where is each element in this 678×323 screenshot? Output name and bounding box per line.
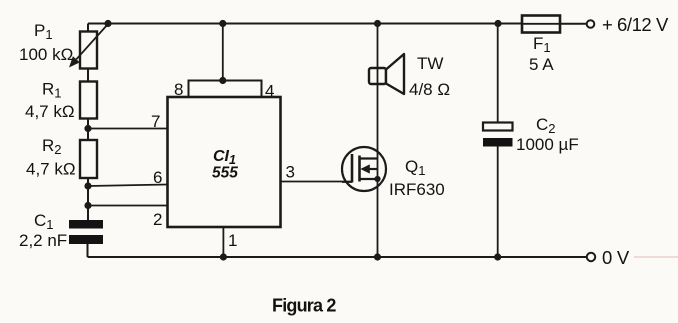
source stub [360, 178, 378, 180]
svg-text:+ 6/12 V: + 6/12 V [602, 14, 669, 35]
svg-text:5 A: 5 A [529, 55, 554, 74]
svg-text:6: 6 [153, 168, 162, 187]
pin 3 wire [281, 181, 353, 183]
svg-text:Figura 2: Figura 2 [272, 296, 336, 316]
svg-text:1: 1 [228, 231, 237, 250]
wire pin 2 [88, 205, 168, 207]
node dot C2/bottom-rail [494, 253, 501, 260]
node dot supply/top-rail [219, 20, 226, 27]
svg-text:TW: TW [417, 54, 443, 73]
wire top rail [88, 23, 522, 25]
node dot source/bottom-rail [374, 253, 381, 260]
svg-text:3: 3 [286, 163, 295, 182]
svg-text:4: 4 [265, 82, 274, 101]
fuse F1 [522, 16, 560, 33]
capacitor C1 [69, 206, 103, 258]
node dot R2-bottom / pin6 [84, 182, 91, 189]
drain stub [360, 157, 378, 159]
capacitor C2 [483, 24, 513, 258]
svg-text:8: 8 [174, 80, 183, 99]
gate lead [342, 181, 352, 183]
pin 1 wire [222, 227, 224, 257]
potentiometer P1 [69, 24, 108, 82]
wire pin 6 [88, 185, 168, 187]
svg-text:4/8 Ω: 4/8 Ω [409, 80, 450, 99]
node dot wiper/top-rail [104, 20, 111, 27]
node dot R1-R2 / pin7 [84, 125, 91, 132]
node dot supply bar [219, 77, 226, 84]
transistor Q1 (MOSFET) [342, 147, 386, 191]
wire faint scan line right of 0 V [634, 256, 678, 258]
terminal + 6/12 V [587, 20, 595, 28]
svg-text:4,7 kΩ: 4,7 kΩ [25, 102, 75, 121]
supply bar pins 8-4 [189, 81, 262, 98]
node dot source [374, 176, 380, 182]
IC CI1 (555 timer) [168, 24, 353, 258]
svg-text:2: 2 [153, 210, 162, 229]
node dot pin1/bottom-rail [220, 253, 227, 260]
node dot speaker/top-rail [374, 20, 381, 27]
svg-text:100 kΩ: 100 kΩ [19, 45, 73, 64]
node dot pin2 [84, 202, 91, 209]
body stub with arrow [366, 168, 378, 170]
node dot C2-F1/top-rail [494, 20, 501, 27]
gate bar [351, 154, 354, 183]
speaker TW [369, 54, 404, 94]
wire pin 7 [88, 128, 168, 130]
resistor R1 [80, 82, 97, 129]
svg-text:1000 µF: 1000 µF [516, 135, 579, 154]
terminal 0 V [587, 253, 595, 261]
wire bottom rail [88, 256, 588, 258]
wire supply from top rail [222, 24, 224, 81]
svg-text:0 V: 0 V [602, 247, 630, 268]
svg-text:2,2 nF: 2,2 nF [19, 231, 67, 250]
svg-text:4,7 kΩ: 4,7 kΩ [26, 160, 76, 179]
wire top rail fuse to terminal [560, 23, 587, 25]
wire pin6-pin2 node link [87, 186, 89, 206]
channel bar [358, 156, 361, 182]
wire speaker/drain vertical [377, 24, 379, 258]
svg-text:7: 7 [151, 112, 160, 131]
svg-text:555: 555 [212, 165, 238, 182]
resistor R2 [80, 129, 97, 187]
svg-text:IRF630: IRF630 [389, 180, 445, 199]
